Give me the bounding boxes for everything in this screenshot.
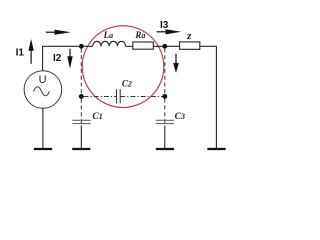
terminal bar source xyxy=(34,148,52,150)
red highlight circle xyxy=(82,26,164,108)
wire: coil lead-in xyxy=(81,45,93,47)
svg-text:I2: I2 xyxy=(53,53,62,64)
capacitor C3 xyxy=(156,120,174,123)
current arrow top-left xyxy=(46,30,71,35)
terminal bar right rail xyxy=(207,148,225,150)
wire: source top to top rail corner xyxy=(43,46,82,71)
node C (left mid junction) xyxy=(79,94,84,99)
svg-text:I3: I3 xyxy=(160,20,169,31)
wire: resistor to node B xyxy=(153,45,179,47)
svg-text:U: U xyxy=(39,74,47,86)
sine symbol xyxy=(34,87,50,96)
wire C1 down xyxy=(80,126,82,149)
inductor La xyxy=(93,41,126,46)
dashed wire node B down xyxy=(164,49,166,97)
wire: coil to resistor xyxy=(126,45,133,47)
dashed wire node A down xyxy=(80,49,82,97)
wire C3 down xyxy=(164,126,166,149)
dashed wire node D to C3 xyxy=(164,99,166,124)
svg-text:La: La xyxy=(103,30,114,40)
current arrow I1 (up) xyxy=(28,39,33,64)
dash-dot wire node C to C2 xyxy=(84,96,118,98)
node A (top left junction) xyxy=(79,44,84,49)
capacitor C2 xyxy=(117,89,121,103)
current arrow I3 (right) xyxy=(157,29,182,34)
svg-text:z: z xyxy=(186,30,192,42)
terminal bar C1 xyxy=(72,148,90,150)
svg-text:Ra: Ra xyxy=(134,30,145,40)
resistor Ra xyxy=(133,42,154,49)
node D (right mid junction) xyxy=(162,94,167,99)
capacitor C1 xyxy=(72,120,90,123)
svg-text:C1: C1 xyxy=(92,112,102,122)
svg-text:I1: I1 xyxy=(16,47,25,58)
dashed wire node C to C1 xyxy=(80,99,82,124)
impedance z box xyxy=(180,42,200,49)
node B (top right junction) xyxy=(162,44,167,49)
terminal bar C3 xyxy=(156,148,174,150)
source U circle xyxy=(24,71,62,109)
wire: z to right rail and down xyxy=(200,46,217,148)
svg-text:C2: C2 xyxy=(122,79,132,89)
wire source down xyxy=(42,108,44,148)
current arrow right branch (down) xyxy=(173,54,179,73)
dash-dot wire C2 to node D xyxy=(120,96,162,98)
svg-text:C3: C3 xyxy=(175,112,185,122)
current arrow I2 (down) xyxy=(67,49,72,69)
